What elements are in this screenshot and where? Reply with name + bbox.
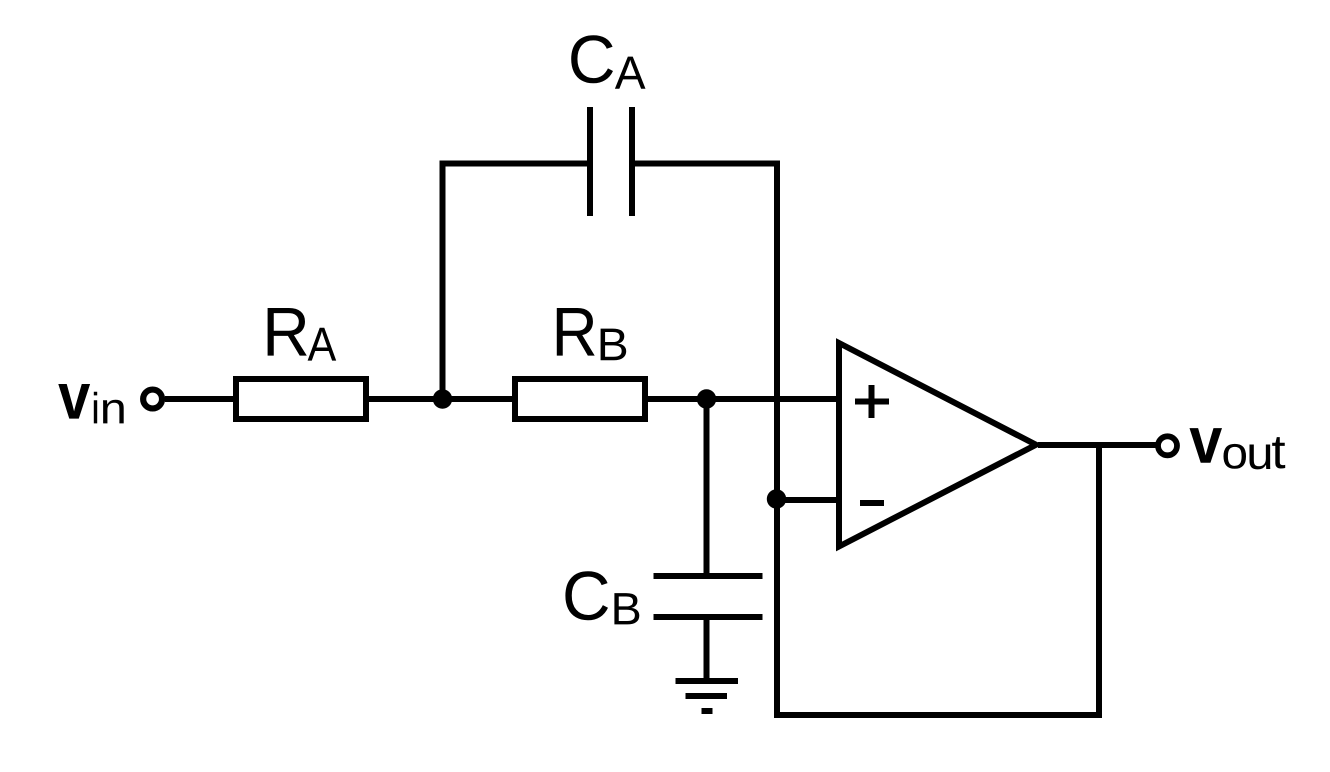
wire CB to ground: [704, 619, 710, 681]
op-amp plus input marker: [855, 385, 889, 418]
wire inverting input stub: [777, 497, 840, 503]
wire CB vertical from junction B: [704, 399, 710, 574]
node Vin terminal: [143, 390, 162, 409]
label Vin: [58, 384, 123, 423]
wire right loop: CA right plate, down right side, bottom feedback, up to output: [634, 164, 1099, 716]
node inverting input dot: [767, 489, 786, 508]
label CB: [565, 571, 639, 624]
label CA: [571, 35, 645, 88]
op-amp U1 triangle: [839, 343, 1036, 547]
wire left loop: junction A up to CA left plate: [443, 164, 591, 400]
resistor RB: [515, 379, 645, 419]
node junction A dot: [433, 389, 452, 408]
label RA: [268, 308, 337, 361]
label Vout: [1190, 428, 1286, 469]
op-amp minus input marker: [860, 500, 884, 506]
node Vout terminal: [1158, 436, 1177, 455]
label RB: [557, 308, 626, 360]
resistor RA: [236, 379, 366, 419]
capacitor CB: [654, 576, 763, 617]
ground: [676, 681, 739, 711]
capacitor CA: [590, 107, 632, 216]
wire main horizontal from Vin to op-amp + input: [165, 396, 839, 402]
node junction B dot: [697, 389, 716, 408]
wire output: [1038, 442, 1156, 448]
